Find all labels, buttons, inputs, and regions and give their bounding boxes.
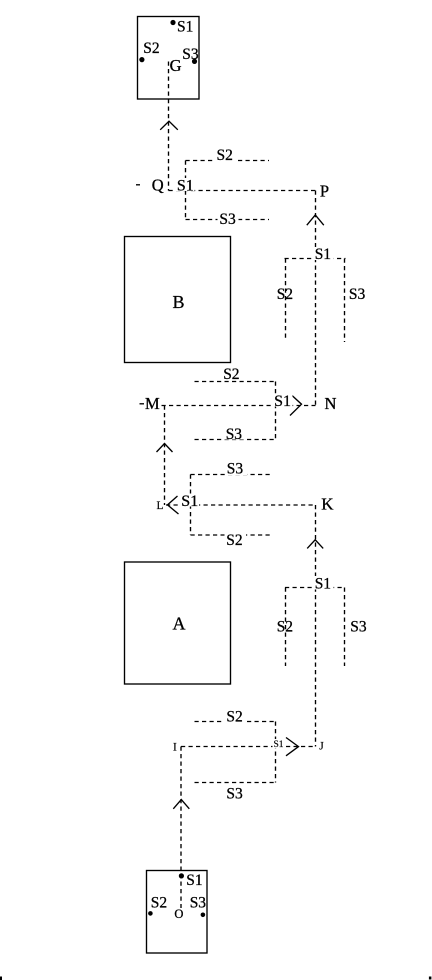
arrowhead right toward N <box>290 395 302 416</box>
svg-text:S1: S1 <box>274 740 284 750</box>
box O (bottom box) <box>147 871 208 954</box>
wire Q S3 horizontal <box>186 219 270 221</box>
wire M to N horizontal <box>162 405 316 407</box>
svg-text:S3: S3 <box>190 895 207 912</box>
wire N S2-S3 connector vertical <box>275 382 277 440</box>
svg-text:S3: S3 <box>227 461 244 478</box>
svg-text:N: N <box>325 394 337 413</box>
label S2 (row L) <box>225 533 247 547</box>
dot S1 in box G <box>170 20 175 25</box>
arrowhead right toward J <box>286 738 299 756</box>
wire J S2-S3 connector vertical <box>275 722 277 783</box>
arrowhead up toward K <box>307 540 323 549</box>
svg-text:O: O <box>174 907 183 921</box>
wire stub left of Q <box>136 184 140 186</box>
label S2 (row Q) <box>215 149 236 162</box>
wire L to K horizontal <box>166 504 316 506</box>
label S1 (row N) <box>273 394 293 407</box>
wire I to J horizontal <box>181 746 316 748</box>
wire G to Q vertical <box>168 62 170 191</box>
svg-text:S2: S2 <box>277 286 293 303</box>
wire branch2 S2 vertical <box>285 588 287 667</box>
svg-text:B: B <box>173 292 185 312</box>
svg-text:S2: S2 <box>226 709 242 726</box>
svg-text:J: J <box>319 741 324 753</box>
wire branch1 bar <box>285 258 346 260</box>
label S1 (row Q) <box>175 178 195 191</box>
svg-text:S3: S3 <box>350 618 367 635</box>
wire branch1 S2 vertical <box>285 259 287 342</box>
svg-text:M: M <box>145 394 160 413</box>
arrowhead up toward P <box>307 215 324 225</box>
svg-text:S1: S1 <box>315 246 331 263</box>
svg-text:A: A <box>173 614 186 634</box>
wire K to J vertical <box>315 505 317 747</box>
wire J S2 horizontal <box>195 721 277 723</box>
svg-text:S2: S2 <box>143 40 159 57</box>
svg-text:S2: S2 <box>226 532 242 549</box>
box B <box>125 237 231 363</box>
svg-text:S2: S2 <box>223 366 239 383</box>
wire M to L vertical <box>164 406 166 506</box>
dot S2 in box G <box>139 57 144 62</box>
label S2 (row J) <box>225 709 247 723</box>
wire P to N vertical <box>315 191 317 406</box>
svg-text:S1: S1 <box>186 872 202 889</box>
wire Q to P horizontal <box>169 190 316 192</box>
box G (top box) <box>138 17 200 100</box>
box A <box>125 562 231 684</box>
svg-text:Q: Q <box>152 176 164 195</box>
svg-text:I: I <box>173 742 177 754</box>
wire Q S2-S3 connector vertical <box>185 161 187 220</box>
wire N S3 horizontal <box>195 439 276 441</box>
mark bottom-left corner <box>0 977 2 980</box>
svg-text:S3: S3 <box>226 786 243 803</box>
svg-text:S3: S3 <box>182 46 199 63</box>
svg-text:K: K <box>321 494 334 513</box>
wire Q S2 horizontal <box>186 160 270 162</box>
dot S3 in box G <box>192 59 197 64</box>
svg-text:L: L <box>157 500 164 512</box>
wire stub left of M <box>140 403 145 405</box>
dot S3 in box O <box>201 913 206 918</box>
wire L S3 horizontal <box>191 474 273 476</box>
mark bottom-right corner <box>429 977 432 980</box>
svg-text:P: P <box>320 182 329 201</box>
label S1 (row L) <box>180 494 200 507</box>
svg-text:S2: S2 <box>217 147 233 164</box>
svg-text:S2: S2 <box>151 895 167 912</box>
svg-text:S3: S3 <box>349 286 366 303</box>
svg-text:S1: S1 <box>181 493 198 510</box>
svg-text:S2: S2 <box>277 618 293 635</box>
label S1 (branch1) <box>313 247 334 260</box>
svg-text:S3: S3 <box>219 211 236 228</box>
wire I to O vertical <box>180 747 182 909</box>
arrowhead up toward M <box>157 444 173 453</box>
arrowhead up toward box G <box>160 121 178 130</box>
wire branch1 S3 vertical <box>344 259 346 343</box>
svg-text:S1: S1 <box>177 19 193 36</box>
svg-text:G: G <box>170 56 182 75</box>
svg-text:S1: S1 <box>274 393 291 410</box>
dot S1 in box O <box>179 873 184 878</box>
wire J S3 horizontal <box>195 782 277 784</box>
label S1 small (row J) <box>273 739 286 748</box>
wire L S3-S2 connector vertical <box>190 475 192 536</box>
label S3 (row L) <box>225 462 247 475</box>
label S1 (branch2) <box>313 576 334 590</box>
label S3 (row Q) <box>218 212 239 226</box>
label S3 (row N) <box>224 427 246 440</box>
arrowhead left toward L <box>168 496 179 514</box>
svg-text:S3: S3 <box>226 426 243 443</box>
wire branch2 bar <box>285 587 345 589</box>
dot S2 in box O <box>148 911 153 916</box>
svg-text:S1: S1 <box>177 177 194 194</box>
wire N S2 horizontal <box>195 381 276 383</box>
wire branch2 S3 vertical <box>344 588 346 667</box>
wire L S2 horizontal <box>191 534 273 536</box>
svg-text:S1: S1 <box>315 575 331 592</box>
arrowhead up toward I <box>173 800 189 809</box>
